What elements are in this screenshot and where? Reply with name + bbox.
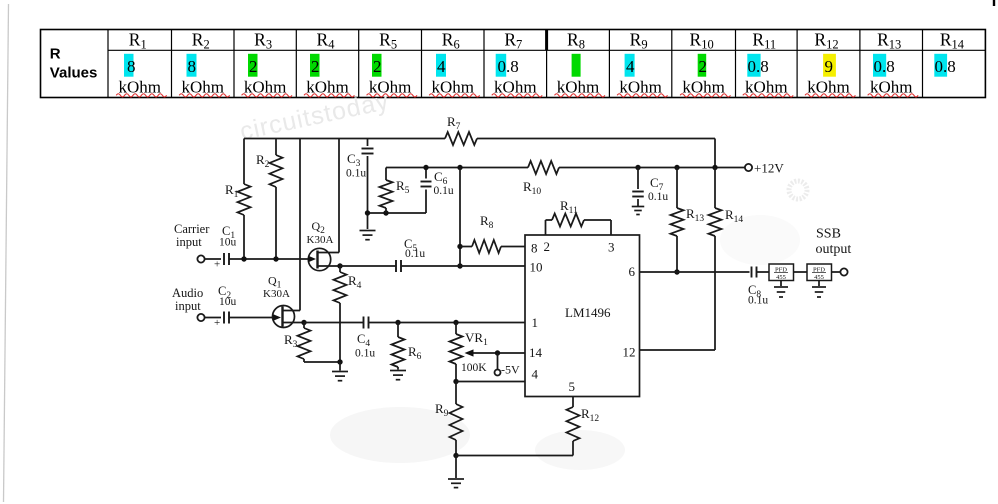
svg-text:SSB: SSB: [816, 227, 841, 242]
ground below filter 2: [812, 287, 826, 297]
wire to ground below node A: [367, 213, 369, 229]
svg-text:R12: R12: [814, 29, 838, 51]
wire top rail right segment: [477, 138, 715, 140]
svg-text:2: 2: [311, 57, 320, 76]
+12V terminal: [745, 164, 752, 171]
wire R3 bottom lead: [303, 359, 305, 362]
capacitor C3: [362, 149, 374, 154]
junction dot C7 on rail: [635, 165, 640, 170]
carrier input terminal: [197, 255, 204, 262]
table value highlight marks: [124, 54, 134, 77]
wire R4 top lead: [339, 266, 341, 272]
svg-text:kOhm: kOhm: [306, 78, 349, 97]
VR1 wiper arrow: [465, 349, 474, 356]
svg-text:LM1496: LM1496: [565, 305, 611, 320]
wire R8 left lead: [460, 246, 472, 248]
junction dot ground node: [337, 359, 342, 364]
resistor R6: [392, 337, 405, 367]
-5V terminal: [495, 370, 501, 376]
svg-text:R14: R14: [940, 29, 965, 51]
svg-text:0.1u: 0.1u: [748, 295, 768, 307]
wire C6 top lead: [425, 168, 427, 179]
wire pin 6 to C8: [640, 271, 750, 273]
wire node A horizontal (C3/R5/C6 bottoms): [368, 212, 427, 214]
ground below C3: [360, 231, 376, 240]
resistor R5: [380, 180, 393, 208]
wire C4 to pin 1: [369, 322, 526, 324]
wire R1 bottom lead: [243, 215, 245, 259]
ground below R9: [448, 479, 464, 488]
svg-text:0.1u: 0.1u: [648, 191, 668, 203]
resistor R12: [567, 407, 580, 441]
svg-text:R7: R7: [504, 29, 522, 51]
wire filter2 ground stub: [818, 281, 820, 287]
svg-text:0.8: 0.8: [935, 57, 956, 76]
junction dot R6 on audio line: [395, 320, 400, 325]
junction dot R8 left end: [457, 244, 462, 249]
wire pin 4 line: [456, 381, 525, 383]
svg-text:8: 8: [531, 241, 538, 256]
junction dot R8 branch on rail: [457, 165, 462, 170]
wire audio line to C4: [304, 322, 363, 324]
wire C3 top lead: [367, 139, 369, 147]
svg-text:R6: R6: [408, 344, 422, 362]
svg-text:R14: R14: [725, 207, 743, 225]
wire Q1 drain riser: [299, 139, 301, 311]
svg-text:0.8: 0.8: [874, 57, 895, 76]
wire Q1 drain lead: [283, 310, 301, 312]
wire R6 bottom lead: [397, 367, 399, 370]
svg-text:R12: R12: [581, 406, 599, 424]
scanned page left border: [4, 4, 9, 502]
wire R13 bottom lead: [676, 236, 678, 272]
wire audio terminal to C2: [205, 317, 222, 319]
wire C2 to Q1 gate: [229, 317, 278, 319]
svg-text:2: 2: [699, 57, 708, 76]
svg-text:R6: R6: [442, 29, 460, 51]
junction dot R5 bottom: [383, 210, 388, 215]
svg-text:R7: R7: [447, 114, 461, 132]
node A junction dot at C3: [365, 210, 370, 215]
svg-text:4: 4: [532, 367, 539, 382]
wire ground node stub: [339, 362, 341, 371]
junction dot VR1 on audio line: [453, 320, 458, 325]
ceramic filter 2 PFD455: [807, 264, 832, 281]
svg-text:R1: R1: [129, 29, 147, 51]
svg-text:R9: R9: [630, 29, 648, 51]
wire VR1 wiper to pin 14: [474, 352, 526, 354]
wire carrier terminal to C1: [205, 258, 222, 260]
svg-text:2: 2: [373, 57, 382, 76]
wire pin 3 stub: [610, 220, 612, 235]
resistor R4: [334, 272, 347, 303]
svg-text:0.1u: 0.1u: [355, 348, 375, 360]
svg-text:K30A: K30A: [307, 234, 334, 246]
svg-text:R3: R3: [284, 332, 298, 350]
svg-text:kOhm: kOhm: [244, 78, 287, 97]
wire top rail drop to +12V rail: [714, 139, 716, 168]
audio input terminal: [197, 314, 204, 321]
svg-text:R11: R11: [752, 29, 776, 51]
ground below R3/R4: [332, 372, 348, 381]
wire R11 right lead: [584, 219, 611, 221]
SSB output terminal: [840, 268, 847, 275]
svg-text:100K: 100K: [461, 362, 487, 374]
wire R14 top lead: [714, 168, 716, 209]
wire filter1 ground stub: [780, 281, 782, 287]
svg-text:1: 1: [532, 315, 539, 330]
wire R2 bottom lead: [275, 187, 277, 259]
junction dot R1 on carrier line: [241, 256, 246, 261]
svg-text:R10: R10: [690, 29, 714, 51]
resistor R10: [528, 161, 559, 174]
svg-text:2: 2: [249, 57, 258, 76]
top-right corner tick: [993, 0, 995, 6]
svg-text:input: input: [175, 299, 201, 313]
wire VR1 bottom lead: [455, 364, 457, 382]
wire to bottom ground: [455, 456, 457, 479]
capacitor C1: [224, 253, 229, 265]
svg-text:0.8: 0.8: [498, 57, 519, 76]
svg-text:3: 3: [608, 240, 615, 255]
svg-text:12: 12: [623, 345, 636, 360]
wire C6 bottom lead: [425, 190, 427, 214]
wire C7 bottom lead: [637, 199, 639, 206]
svg-text:0.1u: 0.1u: [405, 248, 425, 260]
capacitor C7: [632, 192, 644, 197]
wire C8 to filter 1: [757, 271, 770, 273]
junction dot R9/R12 bottom: [453, 453, 458, 458]
svg-text:5: 5: [569, 379, 576, 394]
svg-text:kOhm: kOhm: [745, 78, 788, 97]
svg-text:8: 8: [188, 57, 197, 76]
wire C1 to Q2 gate: [229, 258, 313, 260]
capacitor C6: [421, 182, 432, 187]
resistor R14: [709, 208, 722, 236]
svg-text:R4: R4: [317, 29, 336, 51]
potentiometer VR1: [450, 334, 463, 364]
svg-text:10u: 10u: [219, 296, 237, 308]
svg-text:kOhm: kOhm: [682, 78, 725, 97]
junction dot C6 top on rail: [423, 165, 428, 170]
svg-text:R13: R13: [686, 206, 704, 224]
svg-text:C3: C3: [347, 151, 361, 169]
wire C3 bottom lead: [367, 156, 369, 213]
svg-text:R5: R5: [396, 178, 410, 196]
wire R2 top lead: [275, 139, 277, 156]
svg-text:455: 455: [776, 274, 786, 281]
wire +12V rail right segment: [559, 167, 745, 169]
wire R14 bottom lead: [714, 236, 716, 350]
wire Q2 source to C5: [340, 265, 396, 267]
svg-text:kOhm: kOhm: [182, 78, 225, 97]
wire R12 bottom lead: [572, 441, 574, 456]
svg-text:4: 4: [626, 57, 635, 76]
svg-text:+12V: +12V: [754, 161, 784, 176]
junction dot top-rail joins +12V rail: [712, 165, 717, 170]
svg-text:kOhm: kOhm: [119, 78, 162, 97]
transistor Q2 K30A: [308, 248, 330, 270]
wire -5V tap down: [497, 353, 499, 370]
ground below C7: [632, 207, 645, 215]
junction dot R13 on rail: [674, 165, 679, 170]
junction dot on pin10 line: [457, 263, 462, 268]
svg-text:+: +: [214, 317, 220, 329]
svg-text:Carrier: Carrier: [174, 222, 210, 236]
svg-text:R2: R2: [256, 152, 270, 170]
svg-text:8: 8: [127, 57, 136, 76]
ceramic filter 1 PFD455: [769, 264, 794, 281]
svg-text:0.8: 0.8: [748, 57, 769, 76]
svg-text:VR1: VR1: [465, 330, 488, 348]
capacitor C5: [396, 260, 401, 272]
wire R3 top lead: [303, 323, 305, 329]
svg-text:kOhm: kOhm: [432, 78, 475, 97]
wire pin 5 stub: [572, 397, 574, 408]
wire R8 to pin 8: [501, 246, 525, 248]
wire pin 2 stub: [545, 220, 547, 235]
svg-text:R3: R3: [254, 29, 272, 51]
ground below R6: [390, 371, 406, 380]
svg-text:6: 6: [629, 264, 636, 279]
svg-text:Values: Values: [50, 64, 98, 81]
resistor R9: [450, 404, 463, 440]
resistor R8: [472, 240, 501, 253]
wire top rail left segment: [244, 138, 445, 140]
svg-text:10u: 10u: [219, 237, 237, 249]
Q2 gate arrow: [308, 256, 316, 263]
svg-text:kOhm: kOhm: [807, 78, 850, 97]
wire filter2 to output: [832, 271, 841, 273]
svg-text:0.1u: 0.1u: [346, 168, 366, 180]
wire Q2 drain riser: [338, 139, 340, 253]
capacitor C2: [224, 312, 229, 324]
svg-text:9: 9: [825, 57, 834, 76]
wire R9 top lead: [455, 382, 457, 405]
wire R1 top lead: [243, 139, 245, 185]
svg-text:14: 14: [529, 345, 543, 360]
wire R5 top lead: [385, 168, 387, 181]
wire rail branch down to pin10 line: [459, 168, 461, 267]
wire VR1 top lead: [455, 323, 457, 335]
op-amp U1 LM1496: [525, 235, 640, 397]
resistor R13: [671, 208, 684, 236]
wire +12V rail left segment: [386, 167, 528, 169]
svg-text:C4: C4: [357, 332, 370, 349]
svg-text:R13: R13: [877, 29, 901, 51]
capacitor C8: [752, 267, 757, 278]
svg-text:R11: R11: [560, 198, 578, 216]
svg-text:+: +: [214, 259, 220, 271]
svg-text:10: 10: [530, 260, 543, 275]
ground below filter 1: [774, 287, 788, 297]
svg-text:R1: R1: [225, 182, 239, 200]
faint watermark circuitstoday: [237, 87, 391, 146]
svg-text:kOhm: kOhm: [619, 78, 662, 97]
wire C5 to pin 10: [401, 265, 525, 267]
wire R6 top lead: [397, 323, 399, 338]
wire R3 to ground node: [304, 361, 340, 363]
resistor R2: [270, 155, 283, 187]
svg-text:-5V: -5V: [501, 363, 520, 377]
svg-text:R8: R8: [567, 29, 585, 51]
svg-text:R: R: [50, 46, 61, 63]
svg-text:K30A: K30A: [263, 288, 290, 300]
svg-text:Audio: Audio: [172, 286, 203, 300]
svg-text:kOhm: kOhm: [557, 78, 600, 97]
wire pin 12 line: [640, 349, 716, 351]
svg-text:output: output: [816, 242, 852, 257]
svg-text:input: input: [176, 235, 202, 249]
svg-text:0.1u: 0.1u: [434, 185, 454, 197]
svg-text:R8: R8: [480, 213, 494, 231]
svg-text:kOhm: kOhm: [494, 78, 537, 97]
wire R11 left lead: [546, 219, 553, 221]
wire R9 bottom lead: [455, 440, 457, 456]
wire C7 top lead: [637, 168, 639, 190]
Q1 gate arrow: [273, 314, 281, 321]
svg-text:R5: R5: [379, 29, 397, 51]
wire Q1 source lead: [283, 322, 305, 324]
svg-text:2: 2: [544, 239, 551, 254]
junction dot -5V tap: [495, 350, 500, 355]
resistor R7: [445, 132, 477, 145]
resistor R3: [298, 328, 311, 359]
svg-text:4: 4: [437, 57, 446, 76]
wire Q2 drain lead: [318, 252, 340, 254]
capacitor C4: [364, 317, 369, 329]
wire bottom return R9 to R12: [456, 455, 573, 457]
svg-text:kOhm: kOhm: [870, 78, 913, 97]
faint round stamp watermark: [789, 181, 807, 199]
junction dot R2 on carrier line: [273, 256, 278, 261]
svg-text:R4: R4: [348, 273, 362, 291]
wire filter1 to filter2: [794, 271, 808, 273]
resistor R11: [552, 214, 584, 227]
transistor Q1 K30A: [273, 306, 295, 328]
wire R13 top lead: [676, 168, 678, 209]
svg-text:455: 455: [814, 274, 824, 281]
resistor R1: [238, 184, 251, 215]
svg-text:R2: R2: [192, 29, 210, 51]
wire Q2 source lead: [318, 265, 341, 267]
wire R5 bottom lead: [385, 208, 387, 213]
junction dot Q1 source on audio line: [301, 320, 306, 325]
wire R4 bottom lead to ground node: [339, 303, 341, 362]
junction dot R13 on pin6 line: [674, 269, 679, 274]
junction dot VR1 bottom / pin4 line: [453, 379, 458, 384]
svg-text:R10: R10: [523, 179, 541, 197]
table grid: [41, 30, 986, 98]
junction dot Q2 source / R4 / C5 line: [337, 263, 342, 268]
